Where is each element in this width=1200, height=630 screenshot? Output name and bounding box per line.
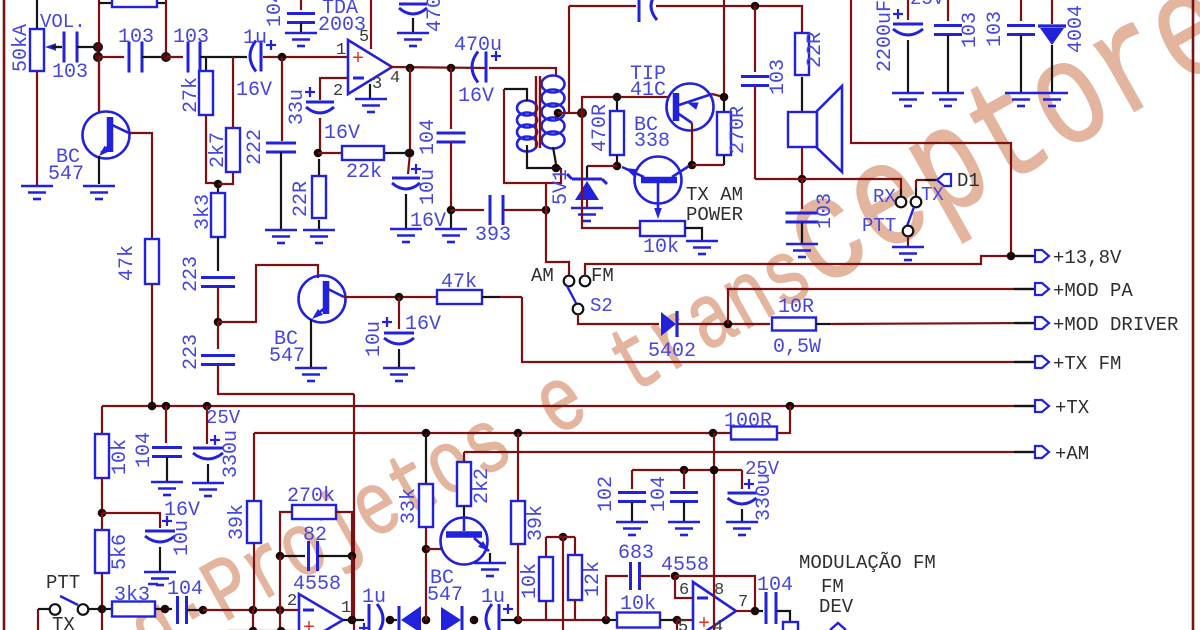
node dot 393 (447, 206, 456, 215)
node dot AM feed (542, 206, 551, 215)
resistor 12k divider (568, 555, 582, 600)
svg-text:547: 547 (427, 584, 463, 607)
capacitor 33u (305, 87, 315, 97)
svg-text:103: 103 (959, 12, 982, 48)
svg-text:8: 8 (714, 581, 724, 600)
svg-text:338: 338 (634, 130, 670, 153)
svg-text:+13,8V: +13,8V (1053, 247, 1122, 269)
wire 222 drop (281, 57, 283, 141)
node dot output opamp1 (348, 616, 357, 625)
svg-text:16V: 16V (236, 79, 272, 102)
switch TX contact (911, 197, 922, 208)
capacitor top coupling (cut) (638, 0, 641, 22)
node dots on +TX rail (148, 402, 157, 411)
33u bottom lead (319, 118, 321, 152)
capacitor 330u 25V rail (206, 406, 208, 444)
wire audio down from dot (562, 537, 564, 630)
svg-text:+MOD PA: +MOD PA (1053, 280, 1133, 302)
wire +AM (464, 451, 1034, 453)
resistor 5k6 (101, 513, 103, 530)
resistor 3k3 (217, 184, 219, 193)
svg-text:103: 103 (173, 26, 209, 49)
opamp1 output wire (343, 619, 364, 621)
TIP base wire (582, 97, 668, 113)
svg-text:1u: 1u (243, 27, 267, 50)
wire plus input (677, 619, 693, 621)
capacitor 104 feedback (437, 133, 466, 142)
transistor TIP41C (667, 84, 714, 131)
svg-text:33u: 33u (286, 89, 309, 125)
wire 47k to +TX rail (151, 284, 153, 406)
wire node to 10u mic (102, 513, 160, 528)
svg-text:2: 2 (333, 82, 343, 101)
wire to third cap (166, 56, 183, 58)
transistor BC547 first (98, 57, 100, 113)
node dot emitter-collector (688, 161, 697, 170)
svg-text:41C: 41C (630, 79, 666, 102)
capacitor 103 speaker bypass (801, 179, 803, 209)
resistor 22R (318, 159, 320, 176)
node dot 222 top (278, 53, 287, 62)
svg-text:16V: 16V (405, 313, 441, 336)
svg-text:16V: 16V (324, 122, 360, 145)
tap wire to base node (558, 112, 582, 114)
ground 104 branch (435, 229, 467, 242)
resistor 2k2 (463, 452, 465, 462)
svg-text:16V: 16V (164, 499, 200, 522)
node dot (162, 53, 171, 62)
svg-text:POWER: POWER (686, 204, 743, 226)
wire cap3 to 1u (200, 56, 247, 58)
svg-text:10u: 10u (363, 321, 386, 357)
svg-text:AM: AM (531, 265, 554, 287)
wire to second cap (99, 56, 124, 58)
BC547 collector wire to 47k (129, 133, 152, 239)
node dot base feed (578, 109, 587, 118)
connector +13,8V (1014, 255, 1034, 257)
wire output node down to 22k node (409, 68, 411, 150)
svg-text:47k: 47k (116, 245, 139, 281)
svg-text:102: 102 (595, 476, 618, 512)
svg-text:3k3: 3k3 (192, 194, 215, 230)
node dot output (406, 64, 415, 73)
node dot BC338 base (613, 162, 622, 171)
schematic right border (1192, 0, 1195, 630)
capacitor 103 second (129, 42, 142, 73)
svg-text:10k: 10k (620, 593, 656, 616)
resistor 2k7 (232, 57, 234, 128)
node dot 3k3 top (214, 180, 223, 189)
svg-text:12k: 12k (582, 561, 605, 597)
switch S2 lever (567, 286, 576, 303)
svg-text:5: 5 (678, 618, 688, 630)
svg-text:470: 470 (424, 0, 447, 32)
switch PTT mic contact B (78, 604, 89, 615)
svg-text:VOL.: VOL. (40, 11, 86, 33)
node dot 470R top (613, 93, 622, 102)
TDA2003 pin2 wire to 33u (320, 78, 348, 100)
svg-text:25V: 25V (910, 0, 945, 10)
speaker bottom lead (801, 147, 803, 179)
capacitor 2200uF 25V (907, 0, 909, 20)
svg-text:MODULAÇÃO FM: MODULAÇÃO FM (799, 552, 936, 574)
ground 2200uF (892, 93, 924, 106)
svg-text:82: 82 (303, 524, 327, 547)
node dot 22k right (406, 149, 415, 158)
svg-text:2: 2 (287, 592, 297, 611)
svg-text:TX: TX (921, 184, 944, 206)
node dot 3k3-104 (161, 605, 170, 614)
connector +MOD PA (1014, 288, 1034, 290)
feedback verticals opamp1 (279, 556, 281, 610)
wire 33k to BC547 base (426, 548, 443, 550)
node dot 223 (214, 318, 223, 327)
svg-text:2200uF: 2200uF (874, 0, 897, 72)
svg-text:PTT: PTT (862, 215, 896, 237)
node dot MOD PA (724, 320, 733, 329)
capacitor 103 supply B (1020, 0, 1022, 21)
ground 103 B (1005, 93, 1037, 106)
BC547 second emitter ground (310, 319, 312, 367)
wire modulator rail (254, 432, 731, 434)
svg-text:TX: TX (52, 614, 75, 630)
svg-text:223: 223 (180, 334, 203, 370)
svg-text:+TX FM: +TX FM (1053, 353, 1121, 375)
wire mic vertical (353, 394, 355, 630)
svg-text:10u: 10u (171, 520, 194, 556)
ground 104 (285, 33, 317, 46)
ground 104 bypass (668, 522, 700, 535)
capacitor 393 (451, 209, 484, 211)
wire stubs to plus line (252, 610, 254, 630)
wire +13.8V feed from top (851, 0, 1011, 256)
svg-text:10u: 10u (417, 169, 440, 205)
wire 2k7 bottom (218, 172, 233, 184)
svg-text:330u: 330u (753, 473, 776, 521)
svg-text:+: + (303, 617, 315, 630)
resistor 470R (616, 97, 618, 111)
wire +TX rail (102, 405, 1034, 407)
wire rail corner to 10k (101, 406, 103, 434)
wire 223 to mic line (218, 365, 354, 394)
svg-text:547: 547 (48, 163, 84, 186)
resistor 3k3 mic (102, 608, 112, 610)
node dot 683 right (671, 572, 680, 581)
svg-text:4: 4 (390, 69, 400, 88)
svg-text:22R: 22R (290, 181, 313, 217)
node dot +13.8V (1007, 252, 1016, 261)
svg-text:103: 103 (118, 26, 154, 49)
wire speaker net (755, 179, 901, 189)
resistor below 104 (cut) (783, 622, 798, 630)
wire AM modulation from transformer (546, 183, 569, 276)
wire +MOD DRIVER (816, 323, 830, 325)
svg-text:1u: 1u (362, 586, 386, 609)
switch S2 AM contact (564, 276, 575, 287)
node dot 82 left (276, 552, 285, 561)
svg-text:22R: 22R (804, 32, 827, 68)
wire mic line to opamp (203, 609, 299, 611)
270k left lead (280, 512, 292, 556)
svg-text:S2: S2 (590, 295, 613, 317)
svg-text:10k: 10k (519, 563, 542, 599)
capacitor 103 supply A (947, 0, 949, 21)
svg-text:330u: 330u (220, 430, 243, 478)
svg-text:27k: 27k (180, 77, 203, 113)
ground 103 A (932, 93, 964, 106)
svg-text:104: 104 (133, 432, 156, 468)
resistor 100R (731, 427, 777, 440)
node dots on opamp minus line (249, 606, 258, 615)
transformer T1 left winding (517, 101, 537, 116)
svg-text:22k: 22k (346, 161, 382, 184)
switch PTT contact (903, 226, 914, 237)
capacitor 222 (266, 143, 296, 152)
svg-text:104: 104 (648, 476, 671, 512)
node dot clipper center (422, 616, 431, 625)
svg-text:270k: 270k (287, 485, 335, 508)
capacitor 104 TDA supply (300, 0, 302, 10)
node dot mic line (199, 606, 208, 615)
wire +MOD PA (728, 289, 1034, 324)
svg-text:+AM: +AM (1055, 443, 1089, 465)
svg-text:47k: 47k (441, 271, 477, 294)
capacitor 103 speaker coupling (741, 77, 769, 86)
svg-text:50kA: 50kA (10, 24, 33, 72)
feedback wire opamp2 (675, 576, 755, 611)
capacitor 10u 16V at TDA output (408, 153, 410, 174)
transformer T1 right winding (542, 76, 565, 93)
node dots bypass net (680, 466, 689, 475)
svg-text:393: 393 (475, 224, 511, 247)
svg-text:5k6: 5k6 (109, 534, 132, 570)
ground 4004 (1036, 93, 1068, 106)
wire 470u to transformer (489, 68, 556, 77)
top wire to coupling cap (569, 5, 636, 7)
node dot opamp2 output (751, 607, 760, 616)
transformer bottom node dot (552, 164, 561, 173)
connector +TX FM (1014, 361, 1034, 363)
node dot 39k2 bottom (514, 616, 523, 625)
TDA2003 pin3 ground (369, 84, 371, 98)
svg-text:2k7: 2k7 (207, 132, 230, 168)
wire 39k rail corner (253, 433, 255, 501)
svg-text:6: 6 (679, 581, 689, 600)
transformer core (535, 76, 537, 148)
transistor BC338 (635, 157, 682, 204)
pot right lead to ground (685, 228, 702, 240)
ground speaker bypass (786, 244, 818, 257)
BC547 third emitter ground (489, 553, 491, 562)
node dot after clipper (470, 616, 479, 625)
FM wire to +13.8V rail (585, 256, 1034, 276)
svg-text:1u: 1u (481, 586, 505, 609)
svg-text:PTT: PTT (46, 572, 80, 594)
svg-text:103: 103 (814, 193, 837, 229)
wire 100R to +TX (777, 406, 790, 433)
node dot 10k-5k6 (98, 509, 107, 518)
svg-text:222: 222 (244, 129, 267, 165)
wire supply drop 4558 (713, 433, 715, 630)
wire top net corner (568, 6, 570, 112)
capacitor 470 supply filter (399, 3, 427, 6)
op-amp TDA2003 (348, 40, 392, 94)
zener 5V1 (587, 165, 617, 167)
BC547 emitter lead and ground (98, 156, 100, 184)
ground 10u stage2 (383, 368, 415, 381)
resistor 270R (717, 112, 731, 155)
svg-text:RX: RX (873, 186, 896, 208)
node dot collector (395, 293, 404, 302)
svg-text:100R: 100R (724, 410, 772, 433)
resistor 27k drop lead (205, 57, 207, 71)
svg-text:2k2: 2k2 (471, 468, 494, 504)
resistor 270k (292, 505, 336, 519)
svg-text:103: 103 (52, 61, 88, 84)
270k right lead (336, 512, 352, 556)
svg-text:0,5W: 0,5W (773, 336, 821, 359)
svg-text:4004: 4004 (1065, 5, 1088, 53)
svg-text:4558: 4558 (661, 554, 709, 577)
node dots modulator rail (422, 429, 431, 438)
svg-text:547: 547 (269, 345, 305, 368)
transistor BC547 third (441, 518, 488, 565)
trimpot arrow DEV (cut) (830, 623, 846, 630)
switch lever PTT (907, 207, 914, 226)
capacitor 223 first (201, 278, 235, 287)
pot left feed wire (582, 113, 640, 228)
svg-text:7: 7 (738, 593, 748, 612)
ground PTT switch (892, 247, 924, 260)
svg-text:FM: FM (821, 576, 844, 598)
resistor 10R 0,5W (772, 318, 816, 331)
resistor 27k (199, 71, 213, 115)
svg-text:470R: 470R (589, 104, 612, 152)
transformer left side wire (504, 89, 561, 183)
ground 102 (616, 522, 648, 535)
svg-text:5V1: 5V1 (550, 169, 573, 205)
svg-text:10k: 10k (109, 439, 132, 475)
connector +MOD DRIVER (1014, 322, 1034, 324)
wire 27k bottom to node (206, 115, 218, 183)
svg-text:+: + (352, 48, 364, 71)
resistor 22k feedback (314, 149, 323, 158)
ground zener (571, 208, 603, 221)
minus input wire opamp2 (675, 576, 693, 598)
capacitor 1u coupling (250, 41, 256, 72)
wire 104 branch down (450, 68, 452, 129)
op-amp 4558 second (693, 582, 736, 630)
svg-text:39k: 39k (226, 504, 249, 540)
capacitor 102 (631, 470, 633, 489)
diode clipper first (398, 606, 401, 630)
trimpot 10k (640, 221, 685, 236)
svg-text:+TX: +TX (1055, 397, 1090, 419)
svg-text:1: 1 (341, 599, 351, 618)
resistor 33k (425, 433, 427, 484)
potentiometer 50kA (36, 0, 38, 29)
node dot supply 4558 (710, 466, 719, 475)
wire audio line bottom (518, 619, 606, 621)
svg-text:25V: 25V (206, 407, 241, 429)
svg-text:10k: 10k (643, 236, 679, 259)
wire 102-104-330u bypass net (632, 469, 742, 471)
top wire to 22R speaker (656, 6, 802, 33)
node dot 33k base (422, 545, 431, 554)
transistor BC547 second (299, 276, 346, 323)
schematic left border (3, 0, 6, 630)
svg-text:4558: 4558 (293, 573, 341, 596)
resistor 39k first (247, 501, 261, 543)
svg-text:DEV: DEV (819, 596, 854, 618)
speaker LS1 (788, 112, 817, 147)
diode 4004 (1051, 0, 1053, 24)
node dot 683 left (602, 616, 611, 625)
switch RX contact (900, 189, 902, 196)
svg-text:16V: 16V (458, 85, 494, 108)
pot bottom lead (36, 71, 38, 185)
node dots at volume (94, 43, 103, 52)
svg-text:683: 683 (618, 542, 654, 565)
resistor 47k horizontal (437, 290, 482, 304)
capacitor 103 input (52, 46, 62, 48)
capacitor 104 rail (165, 406, 167, 443)
node dot top (751, 2, 760, 11)
node dot speaker (798, 175, 807, 184)
wire +TX FM (522, 297, 1034, 362)
resistor 10k divider (539, 557, 553, 601)
capacitor 223 second (217, 322, 219, 349)
feedback resistor (top, cut off) (98, 0, 100, 112)
svg-text:33k: 33k (398, 488, 421, 524)
TIP collector node (720, 93, 729, 102)
node dot 10k-12k top (559, 533, 568, 542)
svg-text:+MOD DRIVER: +MOD DRIVER (1053, 314, 1178, 336)
svg-text:1: 1 (336, 41, 346, 60)
switch PTT mic contact A (50, 604, 61, 615)
S2 common wire to 5402 (578, 314, 659, 324)
svg-text:3k3: 3k3 (114, 584, 150, 607)
svg-text:270R: 270R (727, 106, 750, 154)
svg-text:FM: FM (591, 265, 614, 287)
svg-text:10R: 10R (778, 296, 814, 319)
svg-text:223: 223 (180, 256, 203, 292)
wire collector supply drop (723, 0, 725, 97)
ground 10u mic (144, 572, 176, 585)
node dot plus input (673, 616, 682, 625)
wire 1u to TDA2003 input (263, 56, 348, 58)
svg-text:104: 104 (264, 0, 287, 27)
transformer left winding top lead (504, 89, 527, 101)
node dot 82 right (348, 552, 357, 561)
svg-text:5402: 5402 (648, 340, 696, 363)
svg-text:39k: 39k (525, 505, 548, 541)
resistor 22R speaker (795, 33, 809, 75)
TIP emitter wire (691, 123, 693, 165)
svg-text:3: 3 (372, 75, 382, 94)
resistor 10k mic supply (95, 434, 109, 478)
transformer tap dot (554, 109, 563, 118)
ground 22R (303, 230, 335, 243)
resistor 47k vertical (145, 239, 159, 284)
ground 10u (390, 229, 422, 242)
capacitor 103 third (188, 42, 200, 73)
ground 330u rail (192, 483, 224, 496)
BC338 emitter to pot wiper (657, 183, 660, 211)
connector D1 (925, 179, 937, 181)
svg-text:5: 5 (359, 28, 369, 47)
diode 5402 (661, 312, 676, 336)
